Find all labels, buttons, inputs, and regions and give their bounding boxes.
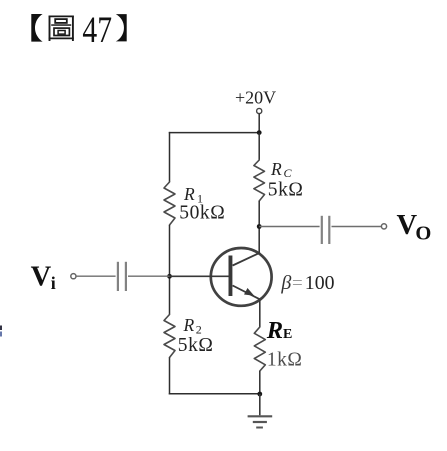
junction: ground node [257, 392, 262, 397]
svg-text:R: R [270, 159, 282, 179]
wire: RC to collector node [258, 201, 260, 227]
wire: collector node to C2 [259, 226, 319, 228]
svg-text:V: V [31, 262, 52, 293]
wire: left branch lower [169, 358, 171, 395]
terminal Vo [381, 224, 386, 229]
wire: top rail horizontal [169, 132, 259, 134]
label RE [266, 317, 293, 344]
svg-text:R: R [266, 317, 283, 344]
svg-text:5kΩ: 5kΩ [178, 335, 214, 356]
label Vo [397, 210, 432, 245]
wire: Vi terminal to C1 [76, 275, 116, 277]
junction: base node [167, 274, 172, 279]
svg-text:β: β [280, 272, 291, 294]
junction: top rail [257, 130, 262, 135]
terminal Vi [71, 274, 76, 279]
svg-text:100: 100 [305, 272, 335, 294]
wire: emitter to RE [259, 300, 261, 327]
svg-text:i: i [51, 273, 56, 293]
svg-text:5kΩ: 5kΩ [268, 179, 304, 200]
label R2 [183, 315, 202, 337]
svg-text:V: V [397, 210, 418, 241]
capacitor C2 (output) [322, 216, 330, 244]
wire: RE to ground rail [259, 371, 261, 394]
wire: C1 to base node [128, 275, 170, 277]
label β=100 [280, 272, 334, 294]
svg-text:1kΩ: 1kΩ [267, 350, 303, 371]
label RC [270, 159, 293, 180]
stray mark left edge [0, 326, 2, 337]
resistor RE [254, 327, 265, 371]
power terminal +20V [257, 108, 262, 113]
svg-text:R: R [183, 184, 195, 204]
resistor R2 [164, 315, 175, 358]
transistor Q1 [211, 248, 272, 306]
label Vi [31, 262, 56, 293]
svg-text:O: O [415, 223, 431, 245]
svg-text:47: 47 [82, 10, 112, 51]
wire: left branch middle [169, 225, 171, 315]
svg-text:E: E [283, 327, 292, 342]
ground [248, 394, 273, 428]
wire: collector node to transistor [258, 227, 260, 253]
wire: bottom rail [169, 393, 260, 395]
resistor RC [254, 160, 265, 201]
label R1 [183, 184, 203, 205]
svg-text:50kΩ: 50kΩ [179, 202, 225, 223]
capacitor C1 (input) [118, 262, 126, 291]
wire: +20V terminal to top rail [258, 114, 260, 133]
svg-text:C: C [284, 166, 293, 180]
wire: base node to transistor base [170, 275, 229, 277]
resistor R1 [164, 182, 175, 225]
wire: C2 to Vo terminal [332, 226, 382, 228]
svg-text:R: R [183, 315, 195, 335]
wire: left branch upper [169, 132, 171, 182]
svg-text:=: = [292, 273, 303, 294]
wire: right branch upper [258, 133, 260, 160]
junction: collector node [257, 224, 262, 229]
svg-text:+20V: +20V [235, 88, 276, 108]
title figure 47 [31, 10, 126, 51]
